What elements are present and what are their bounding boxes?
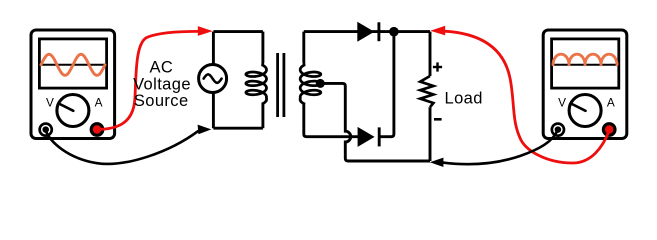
svg-text:A: A (95, 95, 103, 109)
label AC Voltage Source (133, 59, 191, 110)
waveform trace (41, 54, 105, 75)
center tap dot (316, 79, 325, 88)
svg-text:Voltage: Voltage (133, 75, 191, 93)
meter body (543, 30, 627, 139)
selector knob (57, 95, 89, 127)
secondary winding loops (mirrored) (300, 62, 321, 104)
knob pointer (59, 104, 73, 111)
arrowhead red right (430, 26, 445, 36)
waveform trace (553, 54, 617, 65)
diode D2 (358, 127, 375, 147)
resistor Load (420, 76, 433, 107)
rectifier top wire (304, 30, 430, 33)
arrowhead red left (198, 26, 213, 36)
svg-text:A: A (607, 95, 615, 109)
wire from D2 cathode up to junction node (380, 32, 394, 137)
meter screen (39, 39, 106, 88)
knob pointer (571, 104, 585, 111)
transformer primary wire top (261, 32, 264, 63)
label minus (434, 118, 442, 121)
screen center line (41, 64, 105, 66)
center tap wire with hop over diode wire (317, 83, 430, 161)
source loop left wire (212, 32, 215, 129)
source loop top wire (213, 30, 263, 33)
AC source sine symbol (204, 74, 222, 83)
red terminal (602, 122, 617, 137)
screen center line (553, 64, 617, 66)
secondary wire bottom (304, 103, 359, 137)
svg-text:V: V (46, 95, 54, 109)
load branch wire top (429, 32, 432, 76)
wire: black test lead from load to right meter black terminal (443, 131, 557, 164)
AC source circle (199, 65, 227, 93)
arrowhead black right (430, 158, 444, 167)
diode D1 (357, 22, 374, 42)
secondary wire top (302, 32, 305, 63)
black terminal (38, 122, 53, 137)
transformer core (276, 53, 279, 117)
primary winding loops (246, 62, 267, 104)
wire: black test lead from left meter black terminal to source loop (46, 131, 199, 164)
source loop bottom wire (213, 127, 263, 130)
transformer primary wire bottom (261, 103, 264, 129)
black terminal (551, 122, 566, 137)
wire: red test lead from left meter red terminal to source loop (98, 31, 199, 129)
meter body (31, 30, 115, 139)
meter screen (552, 39, 619, 88)
wire: red test lead from load to right meter red terminal (445, 31, 610, 163)
svg-text:Source: Source (134, 92, 189, 110)
junction node dot (389, 27, 399, 37)
label plus (433, 62, 442, 71)
svg-text:V: V (558, 95, 566, 109)
load branch wire bottom (429, 107, 432, 161)
red terminal (90, 122, 105, 137)
svg-text:Load: Load (445, 89, 483, 107)
svg-text:AC: AC (150, 59, 174, 77)
arrowhead black left (198, 125, 212, 135)
selector knob (569, 95, 601, 127)
